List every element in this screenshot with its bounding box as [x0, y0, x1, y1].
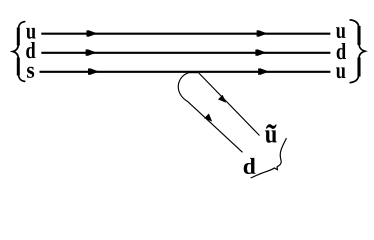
quark label u (outgoing, bottom)	[336, 67, 345, 78]
right brace lower stem thick stroke	[357, 58, 360, 77]
arrowhead on s line (right)	[260, 68, 269, 75]
quark label d (outgoing)	[337, 43, 346, 59]
arrowhead on ubar leg	[218, 95, 226, 103]
label: tilde over u (antiquark bar)	[266, 124, 277, 129]
left brace upper stem thick stroke	[17, 28, 20, 46]
arrowhead on u line (left)	[89, 30, 98, 37]
quark label u (outgoing, top)	[336, 27, 345, 38]
wire: u quark line	[41, 33, 330, 35]
arrowhead on u line (right)	[259, 30, 268, 37]
arrowhead on s line (left)	[90, 68, 99, 75]
meson brace (rotated, grouping d and ubar into pion)	[251, 138, 287, 178]
node: pair-creation vertex on s line	[189, 71, 198, 73]
quark label d (incoming)	[26, 42, 35, 58]
right brace (outgoing proton uud)	[350, 20, 365, 83]
right brace upper stem thick stroke	[357, 26, 360, 45]
wire: hairpin loop right leg (ubar antiquark of pion)	[199, 73, 260, 136]
left brace lower stem thick stroke	[17, 58, 20, 76]
wire: hairpin loop left leg (d quark of pion) with U-turn	[178, 72, 242, 152]
quark label s (incoming)	[27, 67, 34, 78]
wire: s to u quark line	[40, 71, 331, 73]
label: ubar antiquark u of pion	[265, 130, 277, 142]
arrowhead on d leg	[204, 114, 212, 122]
arrowhead on d line (right)	[257, 49, 266, 56]
arrowhead on d line (left)	[88, 49, 97, 56]
wire: d quark line	[41, 52, 330, 54]
label: d quark of pion	[244, 158, 256, 174]
left brace (incoming baryon uds)	[13, 22, 25, 82]
quark label u (incoming)	[26, 28, 35, 39]
